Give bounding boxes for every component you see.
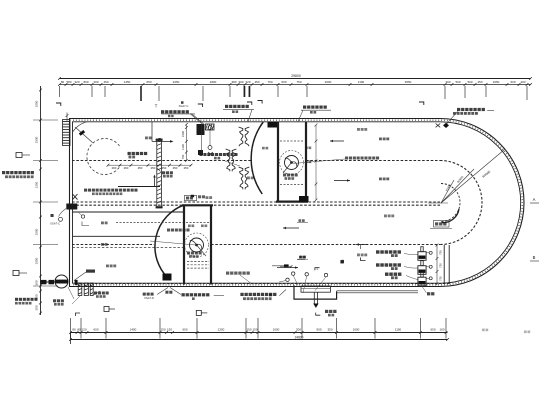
three gate bars across bottom wall: [78, 283, 82, 296]
pipe line: [40, 281, 55, 283]
svg-text:80: 80: [77, 328, 81, 332]
upper chamber bottom cap: [276, 201, 308, 203]
svg-text:200: 200: [296, 328, 301, 332]
top tier2 total dim line: [60, 78, 531, 80]
outlet weir box: [301, 286, 330, 292]
section flag 2-2 top: [315, 268, 320, 271]
aerator zigzag band lower: [239, 167, 243, 189]
upper chamber inner dash rows: [280, 140, 304, 142]
svg-text:1450: 1450: [130, 328, 137, 332]
svg-text:320: 320: [74, 80, 79, 84]
bottom tier2 line: [71, 339, 448, 341]
svg-text:100: 100: [439, 328, 444, 332]
svg-text:600: 600: [281, 80, 286, 84]
center divider dashed lower: [72, 204, 440, 206]
svg-text:XGA7-D: XGA7-D: [144, 296, 154, 300]
svg-text:1450: 1450: [124, 80, 131, 84]
narrow outlet channel right: [443, 245, 445, 284]
upper chamber guide arc: [251, 122, 263, 194]
svg-text:350: 350: [327, 328, 332, 332]
svg-text:600: 600: [510, 80, 515, 84]
small dim verticals in chamber: [315, 125, 317, 200]
svg-text:500: 500: [455, 80, 460, 84]
thick ext marks: [244, 86, 246, 97]
wall hatch ticks top: [73, 120, 522, 285]
flow arrow third channel: [283, 227, 299, 229]
svg-text:120: 120: [81, 328, 86, 332]
section flag 2-2 bottom: [316, 313, 321, 316]
svg-text:150: 150: [160, 328, 165, 332]
svg-text:320: 320: [245, 80, 250, 84]
top main dimension line: [60, 84, 531, 86]
corner guide arc: [73, 122, 87, 132]
lower chamber top cap: [182, 204, 213, 206]
svg-text:900: 900: [316, 328, 321, 332]
channel speed labels: [379, 138, 382, 141]
svg-text:750: 750: [181, 154, 185, 159]
elevation mini label: [181, 101, 184, 104]
mixer U2 circle: [190, 238, 204, 252]
upper chamber right wall: [305, 122, 307, 203]
svg-text:150: 150: [246, 328, 251, 332]
center line right stub: [428, 202, 448, 204]
svg-text:250: 250: [162, 166, 167, 170]
center divider dashed upper: [72, 201, 440, 203]
up arrow left of gate bar: [154, 176, 156, 186]
svg-text:750: 750: [296, 80, 301, 84]
flow arrow on y244 line: [356, 244, 368, 246]
small dim with square left of outlet: [272, 265, 289, 267]
svg-text:650: 650: [182, 328, 187, 332]
radius line mid: [441, 180, 454, 203]
svg-text:1050: 1050: [493, 80, 500, 84]
tank outer wall (inner line): [73, 122, 521, 283]
svg-text:2000: 2000: [325, 80, 332, 84]
svg-text:XGA7-C: XGA7-C: [50, 222, 60, 226]
svg-text:400: 400: [35, 294, 39, 299]
svg-text:T: T: [155, 104, 158, 109]
top label B (inlet gate DN): [225, 105, 228, 108]
lower chamber right wall: [210, 205, 212, 285]
corner diagonal with tick: [75, 127, 93, 143]
left wall gate cluster y205: [66, 204, 77, 210]
double leader to wall: [190, 114, 203, 125]
left labels: [2, 171, 5, 174]
bottom label L2: [53, 299, 56, 302]
inlet area solid line y236: [73, 235, 161, 237]
svg-text:B: B: [533, 255, 536, 260]
svg-text:A: A: [533, 197, 536, 202]
svg-text:2250: 2250: [173, 80, 180, 84]
svg-text:600: 600: [93, 328, 98, 332]
lower chamber dash row: [186, 222, 209, 224]
svg-text:450: 450: [477, 80, 482, 84]
svg-text:1500: 1500: [35, 136, 39, 143]
svg-text:80: 80: [72, 328, 76, 332]
inlet area dark blob row: [86, 270, 95, 273]
label pointing to gate bar w/ leader: [162, 171, 165, 174]
svg-text:1000: 1000: [273, 328, 280, 332]
leader to mixer2: [150, 241, 196, 245]
svg-text:500: 500: [467, 80, 472, 84]
svg-text:1250: 1250: [35, 181, 39, 188]
svg-text:450: 450: [254, 80, 259, 84]
svg-text:260: 260: [124, 166, 129, 170]
svg-text:29800: 29800: [291, 74, 301, 78]
L pipe into chamber with arrow: [151, 122, 153, 141]
radius line R long: [441, 150, 505, 204]
aerator zigzag band upper: [239, 127, 243, 146]
gate G3: [418, 277, 426, 286]
svg-text:300: 300: [445, 80, 450, 84]
svg-text:800: 800: [83, 80, 88, 84]
bottom label L4 + apex leaders: [143, 293, 146, 296]
inlet area solid line y212: [73, 211, 184, 213]
right bottom gate labels: [376, 250, 380, 253]
outlet label: [325, 310, 328, 313]
circled tags: [292, 272, 295, 275]
svg-text:300: 300: [238, 80, 243, 84]
bottom label L3: [94, 292, 97, 295]
aerator zigzag band left: [226, 149, 230, 171]
svg-text:250: 250: [173, 166, 178, 170]
channel divider dashed y160 left: [72, 160, 252, 162]
lower chamber ladder rows: [187, 261, 209, 263]
mini dim above stairs: [66, 113, 68, 122]
wall segment y186 left inlet: [118, 186, 160, 188]
lower chamber gate blob: [163, 274, 172, 281]
channel divider dashed y244 right: [211, 244, 440, 246]
outlet pipes down: [313, 292, 315, 303]
flow arrow fourth channel: [277, 267, 298, 269]
svg-text:XGA7-C: XGA7-C: [179, 104, 189, 108]
svg-text:750: 750: [439, 276, 443, 281]
section flag 1U: [76, 313, 81, 316]
svg-text:650: 650: [146, 80, 151, 84]
mixer U1 circle: [285, 156, 299, 170]
lower chamber guide arc: [155, 205, 184, 278]
svg-text:1500: 1500: [181, 131, 185, 137]
svg-text:250: 250: [151, 166, 156, 170]
svg-text:450: 450: [138, 166, 143, 170]
svg-text:1100: 1100: [181, 144, 185, 150]
svg-text:580: 580: [66, 80, 71, 84]
valve blobs: [40, 280, 47, 284]
vertical dim line inside x186: [185, 124, 187, 160]
svg-text:1050: 1050: [35, 100, 39, 107]
pump circle: [55, 275, 68, 288]
svg-text:260: 260: [112, 166, 117, 170]
inlet gate dark cluster on top wall: [197, 124, 205, 135]
svg-text:1100: 1100: [358, 80, 365, 84]
bottom label L1 pump house: [15, 298, 18, 301]
inlet area dashed y247.5: [73, 247, 184, 249]
svg-text:150: 150: [167, 328, 172, 332]
benchmark marker on wall: [443, 123, 449, 128]
label left of gate bar: [128, 152, 131, 155]
bottom label L6: [240, 293, 243, 296]
flow arrow top channel: [330, 140, 344, 142]
svg-text:3550: 3550: [405, 80, 412, 84]
right end U-turn dashed arc r42: [440, 161, 482, 245]
dash row left of chamber: [116, 222, 183, 224]
left extension lines: [33, 119, 58, 121]
right end inner dashed arc r26: [441, 184, 460, 222]
channel divider dashed y244 left: [72, 244, 154, 246]
svg-text:1800: 1800: [210, 80, 217, 84]
left vertical dimension line: [40, 86, 42, 315]
svg-text:380: 380: [231, 80, 236, 84]
small dim row under C circle / gate bar: [108, 164, 191, 166]
svg-text:80: 80: [61, 80, 65, 84]
svg-text:1250: 1250: [218, 328, 225, 332]
vertical gate bar x159: [157, 140, 162, 207]
svg-text:400: 400: [520, 80, 525, 84]
stairs hatch block top-left: [63, 120, 71, 146]
A flag left: [16, 153, 22, 158]
mixer leader: [293, 159, 345, 164]
flow arrow second channel: [334, 180, 350, 182]
top extension lines: [59, 86, 61, 97]
dashed C-circle upper left: [87, 139, 121, 175]
radius line R short: [441, 169, 474, 203]
channel divider dashed y160 right: [306, 160, 440, 162]
gate G2: [418, 266, 426, 275]
svg-text:300: 300: [93, 80, 98, 84]
svg-text:300: 300: [35, 305, 39, 310]
top right label: [457, 108, 460, 111]
boxed label near lower chamber top: [185, 195, 197, 200]
svg-text:250: 250: [184, 166, 189, 170]
bottom extension lines: [70, 318, 72, 339]
tank outer wall (outer line): [70, 119, 525, 287]
bottom right corner faint texts: [482, 329, 485, 332]
flag pair mid: [258, 101, 263, 104]
svg-text:1050: 1050: [35, 257, 39, 264]
svg-text:150: 150: [252, 328, 257, 332]
svg-text:650: 650: [430, 328, 435, 332]
svg-text:300: 300: [35, 280, 39, 285]
top label C: [303, 106, 306, 109]
svg-text:750: 750: [439, 250, 443, 255]
slope label box right center: [434, 221, 450, 228]
long label row: [161, 110, 164, 113]
right end small solid guide arc: [442, 209, 460, 223]
bottom label L5: [182, 293, 185, 296]
right bottom gates vertical dim line x437: [436, 245, 438, 284]
bottom wall inner dashed line: [75, 283, 449, 285]
label below wall XGA7: [421, 284, 427, 293]
gate G1: [418, 252, 426, 261]
bottom main dimension line: [71, 332, 448, 334]
svg-text:750: 750: [439, 263, 443, 268]
svg-text:700: 700: [267, 80, 272, 84]
outlet channel below wall (L shape): [294, 285, 337, 299]
upper chamber gate blob top: [268, 122, 278, 128]
lower chamber left wall: [183, 205, 185, 285]
svg-text:1500: 1500: [35, 228, 39, 235]
svg-text:1000: 1000: [353, 328, 360, 332]
upper chamber gate blob bottom: [299, 196, 309, 202]
vertical dim line inside x201: [200, 124, 202, 154]
upper chamber left wall: [277, 122, 279, 203]
pipe to gates double line: [337, 290, 418, 292]
B flag left: [13, 271, 19, 276]
svg-text:450: 450: [103, 80, 108, 84]
svg-text:1150: 1150: [395, 328, 402, 332]
